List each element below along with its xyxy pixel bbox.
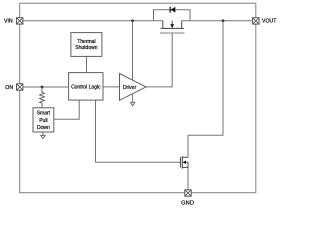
terminal VOUT xyxy=(253,18,259,24)
pass FET Q1 (PMOS) xyxy=(160,21,185,33)
wire Control Logic to Driver xyxy=(103,86,120,88)
junction driver supply xyxy=(131,19,134,22)
svg-text:Down: Down xyxy=(37,125,50,131)
op-amp Driver U1 xyxy=(120,74,147,101)
wire driver supply xyxy=(132,21,134,80)
svg-text:VOUT: VOUT xyxy=(262,18,277,24)
svg-text:Thermal: Thermal xyxy=(77,39,95,45)
svg-text:GND: GND xyxy=(181,201,194,207)
block Thermal Shutdown xyxy=(71,33,102,57)
ground (driver) xyxy=(130,102,135,106)
wire VIN rail xyxy=(23,20,163,22)
svg-text:VIN: VIN xyxy=(4,18,13,24)
wire ON to Control Logic xyxy=(23,86,69,88)
wire discharge FET source to GND xyxy=(187,167,189,189)
wire Control Logic to Thermal Shutdown xyxy=(86,56,88,72)
svg-text:Control Logic: Control Logic xyxy=(71,84,101,90)
terminal VIN xyxy=(17,18,23,24)
junction VOUT branch xyxy=(222,19,225,22)
terminal ON xyxy=(17,84,23,90)
wire Driver ground lead xyxy=(132,94,134,102)
wire Smart Pull Down to Control Logic xyxy=(54,100,79,119)
svg-text:Smart: Smart xyxy=(37,111,51,117)
body diode D1 xyxy=(154,7,191,21)
discharge FET Q2 (NMOS) xyxy=(180,156,188,169)
svg-text:Driver: Driver xyxy=(123,85,137,91)
svg-text:Pull: Pull xyxy=(39,118,47,124)
wire VOUT branch to discharge FET drain xyxy=(188,21,223,158)
resistor R1 xyxy=(40,87,45,108)
ground (smart pull down) xyxy=(41,132,45,139)
terminal GND xyxy=(185,190,191,196)
wire rail to VOUT xyxy=(182,20,253,22)
svg-text:Shutdown: Shutdown xyxy=(75,45,97,51)
block Smart Pull Down xyxy=(33,108,54,132)
wire Control Logic to discharge FET gate xyxy=(96,100,181,162)
IC boundary xyxy=(20,3,256,193)
junction ON/resistor xyxy=(41,86,44,89)
wire Driver output to pass FET gate xyxy=(146,33,172,87)
block Control Logic xyxy=(69,73,103,101)
svg-text:ON: ON xyxy=(5,85,13,91)
